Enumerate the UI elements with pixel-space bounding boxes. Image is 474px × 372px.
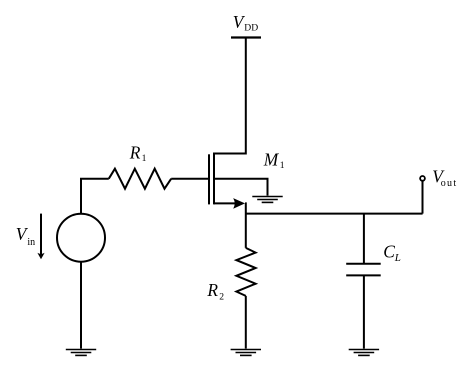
ground (R2) (231, 350, 261, 356)
wire source lead with arrow (214, 198, 246, 248)
svg-text:C: C (383, 241, 395, 261)
svg-text:1: 1 (142, 153, 147, 164)
svg-text:DD: DD (244, 23, 258, 34)
capacitor CL (346, 264, 381, 276)
svg-text:R: R (129, 143, 141, 163)
ground (V_in) (66, 350, 96, 356)
svg-text:L: L (394, 252, 401, 264)
svg-text:in: in (27, 237, 35, 248)
wire V_out lead (422, 181, 424, 213)
source V_in (57, 214, 105, 262)
power rail V_DD (231, 36, 261, 38)
terminal V_out (420, 176, 425, 181)
wire bulk of M1 (214, 179, 268, 196)
svg-text:R: R (206, 280, 218, 300)
wire R2 to ground (245, 296, 247, 349)
resistor R2 (236, 248, 255, 296)
svg-text:out: out (441, 178, 457, 189)
ground (bulk of M1) (252, 197, 282, 203)
svg-text:M: M (263, 149, 280, 169)
svg-text:1: 1 (280, 160, 285, 171)
wire R1 to V_in (81, 179, 109, 214)
svg-text:2: 2 (219, 291, 224, 302)
wire output node row (246, 213, 423, 215)
wire CL to ground (363, 276, 365, 349)
wire output node to CL (363, 214, 365, 263)
wire V_in to ground (80, 262, 82, 349)
transistor M1 (209, 153, 214, 205)
ground (CL) (349, 350, 379, 356)
wire gate lead (171, 178, 209, 180)
resistor R1 (109, 169, 171, 189)
wire drain to V_DD (214, 38, 246, 154)
arrow V_in polarity (37, 214, 44, 260)
